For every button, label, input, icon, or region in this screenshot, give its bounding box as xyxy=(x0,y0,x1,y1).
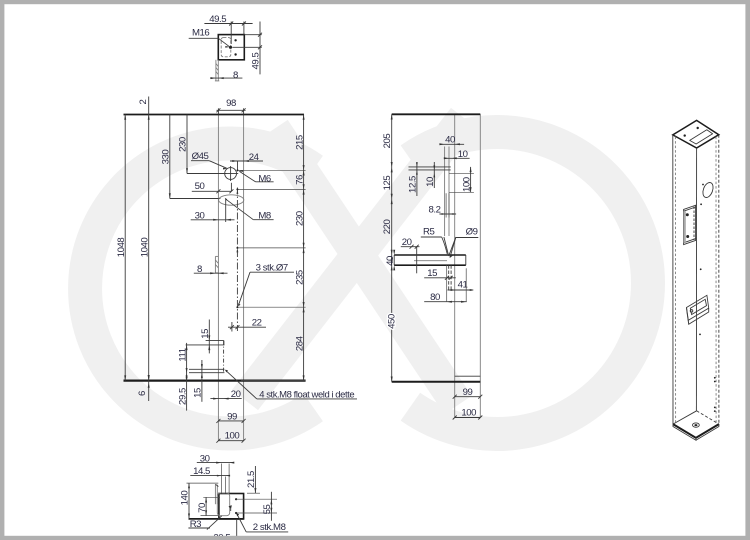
right dim chain 215 76 230 235 284 xyxy=(303,115,305,381)
top detail view: square section xyxy=(218,35,244,60)
svg-text:70: 70 xyxy=(197,503,208,513)
svg-text:1048: 1048 xyxy=(116,238,127,258)
svg-text:8: 8 xyxy=(233,70,238,81)
dim 99 bottom front xyxy=(218,420,243,422)
svg-text:125: 125 xyxy=(382,176,393,191)
dim 20.5 cut at bottom xyxy=(236,519,238,536)
svg-text:Ø45: Ø45 xyxy=(192,151,209,162)
center arrow mark xyxy=(229,505,232,508)
svg-text:8.2: 8.2 xyxy=(429,204,441,215)
iso left edge xyxy=(672,135,674,424)
svg-text:15: 15 xyxy=(427,268,437,279)
svg-text:100: 100 xyxy=(225,431,240,442)
weld V notch xyxy=(444,237,449,256)
dim 21.5 xyxy=(254,466,256,493)
iso hook bracket xyxy=(684,205,696,244)
svg-text:M16: M16 xyxy=(192,28,209,39)
dim 140 xyxy=(188,483,190,519)
front view bottom edge xyxy=(124,380,306,382)
extension verticals from top dims xyxy=(220,464,222,494)
dim 15 lower xyxy=(201,360,203,402)
hidden M8 dashed line xyxy=(223,341,225,373)
iso top face xyxy=(673,120,719,148)
dim 99 side xyxy=(455,396,481,398)
M16 center hole xyxy=(229,46,232,49)
svg-text:330: 330 xyxy=(161,150,172,165)
dim 100 bottom front xyxy=(218,440,243,442)
upper feature hidden lines xyxy=(444,147,446,237)
gray frame left xyxy=(0,0,4,540)
hole extension lines xyxy=(236,498,277,500)
two M8 holes xyxy=(235,498,237,500)
small tab 8 on left edge xyxy=(214,256,216,273)
svg-text:R3: R3 xyxy=(190,519,201,530)
dim 100 right xyxy=(470,167,472,192)
dim 40 bar arrows xyxy=(393,250,395,255)
svg-text:230: 230 xyxy=(178,137,189,152)
svg-text:20: 20 xyxy=(402,237,412,248)
extension lines to right dim chain xyxy=(239,169,306,171)
bracket plates edge-on xyxy=(409,166,451,168)
svg-text:235: 235 xyxy=(294,270,305,285)
dim 100 side xyxy=(455,417,481,419)
iso top slot xyxy=(690,130,713,144)
left tab below square xyxy=(215,60,217,81)
hole diameter 45 circle xyxy=(225,168,237,180)
side view column bottom xyxy=(455,375,481,377)
bottom edge extended xyxy=(189,518,244,520)
svg-text:76: 76 xyxy=(294,175,305,185)
iso right edge dot pairs xyxy=(714,377,716,379)
lower bracket lines xyxy=(189,368,224,370)
gray frame bottom xyxy=(0,536,750,540)
front view top edge xyxy=(124,114,305,116)
svg-text:1040: 1040 xyxy=(139,238,150,258)
dim 6 bottom-left xyxy=(148,375,150,380)
dia9 hole hidden lines xyxy=(448,265,450,290)
svg-text:2: 2 xyxy=(138,99,149,104)
gray frame right xyxy=(745,0,750,540)
svg-text:R5: R5 xyxy=(423,226,434,237)
svg-text:M6: M6 xyxy=(258,173,271,184)
gray frame top xyxy=(0,0,750,4)
vertical centerline with holes xyxy=(236,188,238,332)
svg-text:40: 40 xyxy=(445,134,455,145)
dim 111 and 29.5 xyxy=(186,343,188,411)
iso small hole dots xyxy=(700,203,702,205)
bottom detail square xyxy=(219,494,244,519)
svg-text:50: 50 xyxy=(195,181,205,192)
iso right edge dashed xyxy=(718,135,720,424)
8mm strip xyxy=(214,485,216,505)
svg-text:15: 15 xyxy=(193,388,204,398)
front view column outline xyxy=(217,115,219,442)
M8 weld nut ellipse xyxy=(219,195,244,205)
svg-text:450: 450 xyxy=(386,314,397,329)
svg-text:6: 6 xyxy=(137,391,148,396)
svg-text:98: 98 xyxy=(226,98,236,109)
side view top edge xyxy=(392,113,481,115)
iso base plate xyxy=(673,411,697,424)
two hole dots xyxy=(234,39,236,41)
svg-text:230: 230 xyxy=(294,211,305,226)
svg-text:111: 111 xyxy=(177,348,188,361)
svg-text:29.5: 29.5 xyxy=(177,388,188,405)
svg-text:Ø9: Ø9 xyxy=(466,227,478,238)
iso center edge xyxy=(695,148,697,411)
dim 230 upper xyxy=(186,115,188,174)
dim 15 upper xyxy=(208,320,210,354)
upper tab near bottom xyxy=(206,340,224,342)
svg-text:140: 140 xyxy=(180,491,191,506)
watermark logo xyxy=(85,118,648,434)
side plate bar xyxy=(394,254,466,256)
svg-text:100: 100 xyxy=(461,177,472,192)
svg-text:15: 15 xyxy=(200,329,211,339)
dim 1040 xyxy=(148,97,150,402)
svg-text:220: 220 xyxy=(382,219,393,234)
iso box bracket xyxy=(687,295,709,320)
iso base hole xyxy=(693,423,700,427)
svg-text:215: 215 xyxy=(294,135,305,150)
dim 55 xyxy=(270,492,272,521)
dim 10 inner xyxy=(433,162,435,188)
svg-text:284: 284 xyxy=(294,335,305,351)
left dim chain 205 125 220 40 450 xyxy=(391,114,393,381)
svg-text:55: 55 xyxy=(262,505,273,515)
svg-text:99: 99 xyxy=(227,411,237,422)
dashed inner plate xyxy=(221,38,231,57)
dim 330 xyxy=(169,115,171,199)
dim 1048 left xyxy=(124,115,126,381)
rounded plate profile xyxy=(217,493,229,516)
iso left inner dashed xyxy=(674,137,676,422)
M8 hole edge line xyxy=(225,199,227,222)
svg-text:100: 100 xyxy=(461,407,476,418)
side view column outline xyxy=(454,114,456,417)
svg-text:10: 10 xyxy=(425,177,436,187)
three dia7 holes xyxy=(236,188,238,190)
svg-text:12.5: 12.5 xyxy=(408,176,419,193)
svg-text:205: 205 xyxy=(382,134,393,149)
dim 70 xyxy=(205,497,207,515)
dim 12.5 xyxy=(416,162,418,196)
iso top dots xyxy=(684,134,686,136)
svg-text:21.5: 21.5 xyxy=(246,471,257,488)
svg-text:99: 99 xyxy=(463,387,473,398)
side view base bottom edge xyxy=(392,381,481,383)
iso dia45 hole ellipse xyxy=(701,181,715,199)
